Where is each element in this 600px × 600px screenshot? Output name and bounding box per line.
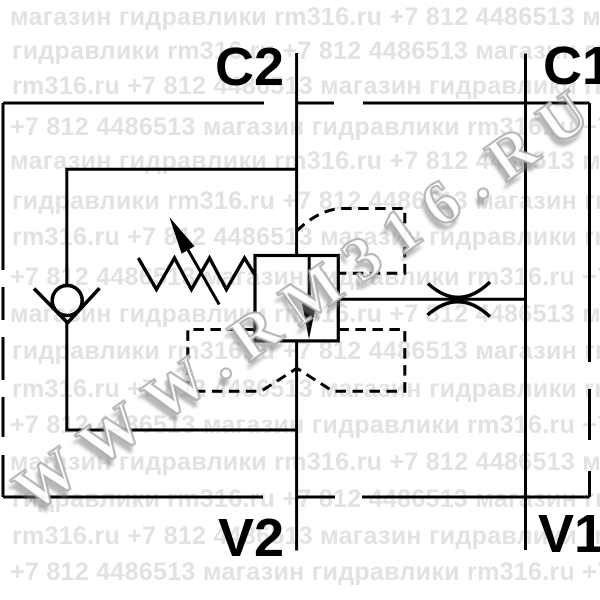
enclosure boundary top edge (long dashes) — [3, 102, 590, 105]
port label C1 — [543, 36, 600, 96]
watermark tiled row 1 — [10, 5, 600, 30]
check valve seat — [34, 288, 100, 323]
valve poppet flow arrow — [302, 302, 317, 339]
wire port C1 to port V1 — [524, 54, 527, 551]
enclosure boundary left edge (long dashes) — [2, 103, 5, 497]
watermark tiled row 14 — [12, 487, 600, 512]
watermark tiled row 5 — [10, 149, 600, 174]
svg-text:C2: C2 — [215, 37, 284, 97]
watermark tiled row 3 — [12, 74, 600, 99]
wire valve square bottom down to port V2 — [295, 341, 298, 550]
restrictor upper arc — [428, 282, 490, 297]
watermark tiled row 6 — [12, 189, 600, 214]
port label V1 — [538, 504, 600, 564]
watermark tiled row 12 — [10, 413, 600, 438]
watermark tiled row 15 — [12, 524, 600, 549]
port label C2 — [215, 37, 284, 97]
watermark tiled row 13 — [10, 450, 600, 475]
watermark tiled row 10 — [12, 339, 600, 364]
adjustment arrow shaft — [188, 250, 219, 305]
svg-text:V1: V1 — [538, 504, 600, 564]
diagonal site watermark — [1, 67, 600, 527]
watermark tiled row 7 — [12, 225, 600, 250]
watermark tiled row 8 — [10, 265, 600, 290]
watermark tiled row 9 — [10, 302, 600, 327]
wire port C2 down to valve square — [295, 53, 298, 255]
port label V2 — [218, 508, 284, 568]
wire branch from C2 line to check valve — [67, 169, 297, 284]
valve poppet flow line — [308, 257, 311, 303]
watermark tiled row 4 — [10, 115, 600, 140]
spring — [138, 258, 255, 290]
enclosure boundary right edge (long dashes) — [588, 103, 591, 497]
check valve ball — [52, 286, 82, 316]
pilot line lower right loop (dashed) — [297, 330, 405, 392]
adjustment arrow head — [169, 217, 194, 254]
watermark tiled row 16 — [10, 560, 600, 585]
pilot line lower left loop (dashed) — [188, 330, 297, 392]
watermark tiled row 2 — [12, 39, 600, 64]
wire check valve to V2 line — [67, 322, 297, 430]
wire valve to C1 line with restrictor — [338, 298, 525, 301]
enclosure boundary bottom edge (long dashes) — [3, 496, 590, 499]
restrictor lower arc — [428, 302, 491, 317]
valve main square — [255, 256, 338, 341]
svg-text:V2: V2 — [218, 508, 284, 568]
pilot line upper loop (dashed) — [297, 209, 405, 274]
watermark tiled row 11 — [12, 377, 600, 402]
